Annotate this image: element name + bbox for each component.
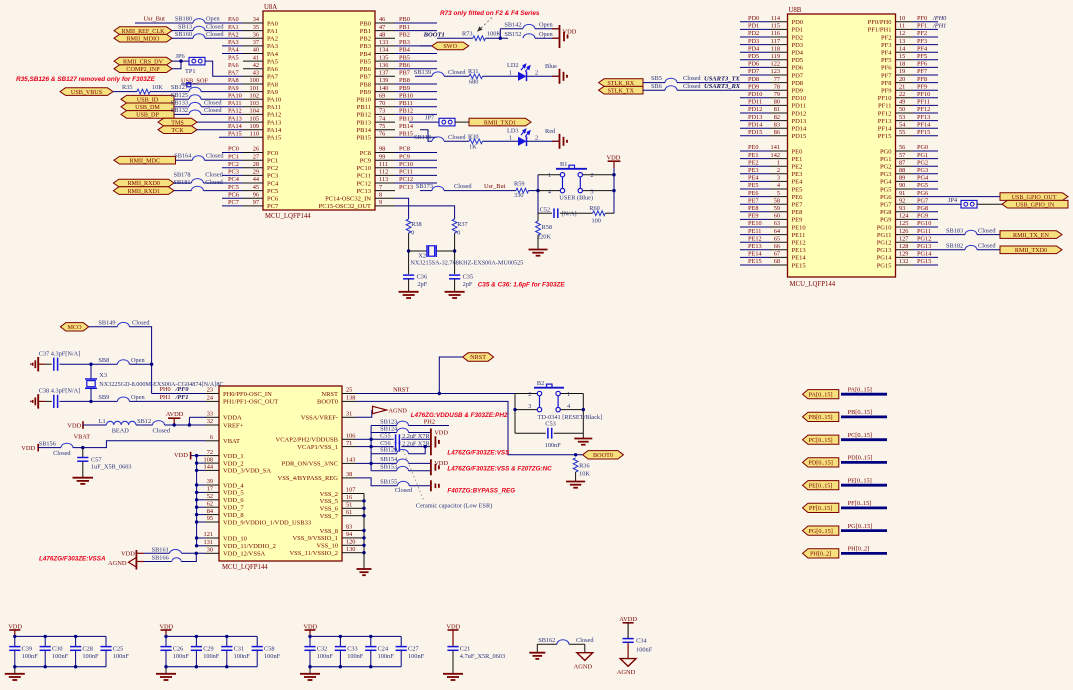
svg-text:PB14: PB14	[357, 127, 372, 134]
U8A pin PB4 (134)	[360, 47, 411, 58]
wire PB2 to R73	[437, 37, 473, 39]
wire PG9	[913, 218, 938, 220]
svg-text:PA13: PA13	[267, 119, 281, 126]
svg-text:75: 75	[379, 123, 385, 130]
svg-text:SB181: SB181	[173, 179, 190, 186]
wire USB_ID to SB125	[174, 98, 189, 100]
port USB_GPIO_OUT	[1000, 193, 1068, 201]
U8B pin PD8 (77)	[748, 76, 803, 87]
svg-text:2: 2	[528, 391, 531, 398]
svg-text:Closed: Closed	[683, 83, 701, 90]
svg-text:1: 1	[777, 159, 780, 166]
svg-text:PE15: PE15	[748, 258, 762, 265]
svg-text:PC5: PC5	[267, 188, 278, 195]
wire R31 to LD2	[483, 75, 519, 77]
svg-text:72: 72	[207, 449, 213, 456]
wire PG5	[913, 188, 938, 190]
solder bridge SB123	[380, 418, 408, 425]
svg-text:Closed: Closed	[205, 171, 223, 178]
svg-text:RMII_TXD1: RMII_TXD1	[484, 120, 516, 126]
capacitor C39 100nF	[9, 636, 38, 666]
capacitor C38 4.3pF[N/A]	[38, 388, 80, 408]
svg-text:PD11: PD11	[792, 103, 807, 110]
svg-text:PG14: PG14	[877, 255, 893, 262]
wire PB14 to SB118	[420, 130, 432, 142]
ground (C35)	[445, 291, 465, 293]
bus wire PH[0..2]	[841, 552, 887, 555]
power VDD (PDR_ON)	[431, 459, 449, 475]
svg-text:VSSA/VREF-: VSSA/VREF-	[301, 415, 338, 422]
svg-text:PE8: PE8	[748, 205, 759, 212]
svg-text:13: 13	[899, 38, 905, 45]
wire PA0 to SB180	[135, 22, 193, 24]
junction right rail top	[612, 173, 615, 176]
svg-text:SB6: SB6	[651, 83, 662, 90]
svg-text:Closed: Closed	[204, 99, 222, 106]
svg-text:PH[0..2]: PH[0..2]	[848, 546, 870, 553]
junction PDR_ON	[369, 462, 372, 465]
svg-text:PD6: PD6	[792, 65, 804, 72]
svg-text:PB13: PB13	[357, 119, 371, 126]
svg-text:PD0: PD0	[748, 15, 759, 22]
IC U8B (MCU_LQFP144)	[788, 7, 896, 288]
svg-text:PE2: PE2	[748, 159, 759, 166]
svg-text:PC12: PC12	[357, 180, 371, 187]
svg-text:112: 112	[379, 169, 388, 176]
svg-text:PE14: PE14	[748, 251, 762, 258]
svg-text:SB155: SB155	[380, 479, 397, 486]
svg-text:21: 21	[899, 83, 905, 90]
wire USB_VBUS to R35	[113, 91, 137, 93]
svg-text:PB8: PB8	[399, 77, 410, 84]
svg-text:VCAP1/VSS_1: VCAP1/VSS_1	[297, 444, 338, 451]
U8A pin PB6 (136)	[360, 62, 410, 73]
solder bridge SB154	[371, 456, 408, 463]
wire PC7	[222, 205, 243, 207]
U8B pin PE1 (142)	[748, 152, 802, 163]
solder bridge SB161	[152, 547, 182, 554]
svg-text:PE6: PE6	[748, 190, 759, 197]
svg-text:RMII_REF_CLK: RMII_REF_CLK	[122, 29, 166, 35]
svg-text:C34: C34	[636, 638, 647, 645]
junction AVDD stem	[173, 423, 176, 426]
svg-text:91: 91	[899, 190, 905, 197]
svg-text:JP7: JP7	[425, 114, 434, 121]
wire PF6	[913, 66, 938, 68]
U8B pin PD14 (83)	[748, 121, 807, 132]
svg-text:SB180: SB180	[175, 16, 192, 23]
ground (bank C26)	[156, 673, 176, 675]
svg-text:PF8: PF8	[881, 80, 891, 87]
junction VSS rail VSS_5	[362, 499, 365, 502]
U8C pin VSS_7 (61)	[320, 509, 356, 520]
junction B2 right row2	[582, 408, 585, 411]
svg-text:SB183: SB183	[946, 227, 963, 234]
wire RMII_MDIO to PA2	[172, 37, 193, 39]
svg-text:PA4: PA4	[228, 47, 239, 54]
svg-text:PF5: PF5	[917, 53, 927, 60]
svg-text:PB10: PB10	[357, 97, 371, 104]
solder bridge SB125	[171, 92, 201, 99]
crystal X3 NX3225GD-8.000M	[85, 372, 224, 388]
svg-text:130: 130	[346, 546, 355, 553]
solder bridge SB13 (Closed)	[178, 23, 224, 30]
svg-text:TCK: TCK	[171, 128, 184, 134]
svg-text:C55: C55	[380, 433, 391, 440]
svg-text:SB173: SB173	[416, 183, 433, 190]
wire PD5	[740, 59, 770, 61]
svg-text:RMII_MDIO: RMII_MDIO	[127, 36, 160, 42]
svg-text:30: 30	[207, 547, 213, 554]
svg-text:45: 45	[253, 184, 259, 191]
wire NRST flag riser	[439, 357, 462, 394]
solder bridge SB162 (Closed)	[538, 637, 594, 644]
svg-text:0: 0	[411, 229, 414, 236]
svg-text:VSS_10: VSS_10	[316, 543, 338, 550]
svg-text:/PF0: /PF0	[175, 386, 190, 393]
solder bridge SB156 (Closed)	[39, 440, 73, 456]
svg-text:PB11: PB11	[399, 100, 413, 107]
U8A pin PA15 (110)	[228, 131, 281, 142]
U8A pin PC12 (113)	[357, 176, 413, 187]
svg-text:102: 102	[250, 92, 259, 99]
bus port PE[0..15]	[803, 481, 839, 490]
svg-text:PF15: PF15	[878, 133, 892, 140]
svg-text:7: 7	[379, 184, 382, 191]
wire bus to VDD_8	[197, 514, 205, 516]
svg-text:SB178: SB178	[173, 171, 190, 178]
wire JP4 to USB_GPIO_IN	[977, 203, 1002, 205]
svg-text:PE12: PE12	[748, 235, 762, 242]
U8C pin VSS_6 (51)	[320, 502, 356, 513]
svg-text:50: 50	[899, 106, 905, 113]
U8A pin PC1 (27)	[228, 153, 278, 164]
U8B pin PE8 (59)	[748, 205, 802, 216]
svg-text:PA13: PA13	[228, 115, 242, 122]
svg-text:PG[0..15]: PG[0..15]	[848, 523, 873, 530]
svg-text:138: 138	[346, 395, 355, 402]
svg-text:VDDA: VDDA	[223, 415, 242, 422]
U8B pin PG10 (125)	[877, 220, 932, 231]
U8A pin PB14 (75)	[357, 123, 414, 134]
svg-text:PD3: PD3	[748, 38, 759, 45]
wire PE1	[740, 158, 770, 160]
junction VSS rail VSS_9/VSSIO_1	[362, 536, 365, 539]
svg-text:PA12: PA12	[228, 108, 242, 115]
svg-text:PC0: PC0	[267, 150, 278, 157]
svg-text:71: 71	[346, 440, 352, 447]
svg-text:SB133: SB133	[171, 99, 188, 106]
svg-text:PD12: PD12	[748, 106, 762, 113]
svg-text:84: 84	[207, 508, 214, 515]
U8B pin PF15 (55)	[878, 129, 931, 140]
junction bottom bus C30	[44, 665, 47, 668]
svg-text:38: 38	[346, 471, 352, 478]
svg-text:PE11: PE11	[748, 228, 761, 235]
svg-text:128: 128	[899, 243, 908, 250]
U8A pin PC7 (97)	[228, 199, 279, 210]
svg-text:63: 63	[774, 220, 780, 227]
svg-text:PD14: PD14	[792, 126, 808, 133]
svg-text:10K: 10K	[579, 471, 590, 478]
wire PB6	[395, 68, 437, 70]
svg-text:14: 14	[899, 45, 906, 52]
svg-text:C53: C53	[545, 420, 556, 427]
svg-text:AGND: AGND	[574, 664, 593, 671]
U8B pin PG4 (89)	[880, 175, 929, 186]
svg-text:SB161: SB161	[152, 547, 169, 554]
svg-text:129: 129	[899, 251, 908, 258]
port COMP2_INP	[114, 65, 172, 73]
svg-text:PB15: PB15	[357, 135, 371, 142]
svg-text:111: 111	[379, 161, 388, 168]
svg-text:/PH0: /PH0	[932, 15, 947, 22]
wire PF12	[913, 112, 938, 114]
wire PG6 to USB_GPIO_OUT	[913, 196, 1000, 198]
wire C38 to SB9	[60, 400, 118, 402]
svg-text:PG15: PG15	[877, 262, 892, 269]
wire VSS_4 pin row	[356, 478, 397, 486]
svg-text:PG14: PG14	[917, 251, 932, 258]
svg-text:PE3: PE3	[748, 167, 759, 174]
port STLK_RX	[599, 79, 643, 87]
junction VSS rail VSS_10	[362, 544, 365, 547]
svg-text:SB125: SB125	[171, 92, 188, 99]
U8C pin VDDA (33)	[205, 411, 242, 422]
wire riser to PH0 pin	[152, 393, 205, 395]
svg-text:54: 54	[899, 121, 906, 128]
solder bridge SB155 (Closed)	[380, 479, 413, 495]
svg-text:58: 58	[774, 197, 780, 204]
svg-text:PF14: PF14	[878, 126, 892, 133]
U8B pin PF1/PH1 (11)	[868, 23, 928, 34]
svg-text:PD10: PD10	[792, 95, 807, 102]
wire PF10	[913, 97, 938, 99]
svg-text:117: 117	[771, 38, 780, 45]
wire PB13 to JP7	[409, 121, 439, 123]
junction B1 left	[536, 189, 539, 192]
capacitor C35 2pF	[449, 274, 473, 288]
power VDD (L1)	[67, 421, 83, 429]
junction VSS rail VSS_7	[362, 514, 365, 517]
U8C pin VCAP1/VSS_1 (71)	[297, 440, 356, 451]
svg-text:47: 47	[379, 24, 385, 31]
U8B pin PF3 (13)	[881, 38, 927, 49]
wire VSS_2 stub	[356, 493, 364, 495]
U8B pin PG7 (92)	[880, 197, 928, 208]
ground (C36)	[399, 291, 419, 293]
svg-text:VDD: VDD	[607, 154, 621, 161]
junction VDD entry (C32)	[308, 635, 311, 638]
svg-text:RMII_RXD1: RMII_RXD1	[127, 189, 160, 195]
svg-text:PC2: PC2	[267, 165, 278, 172]
svg-text:99: 99	[379, 153, 385, 160]
dotted leader to C55/C56	[403, 450, 424, 501]
wire bus to VDD_7	[197, 506, 205, 508]
svg-text:F407ZG:BYPASS_REG: F407ZG:BYPASS_REG	[447, 488, 515, 495]
svg-text:PE4: PE4	[748, 175, 759, 182]
svg-text:1: 1	[509, 70, 512, 77]
junction bottom bus C29	[195, 665, 198, 668]
svg-text:64: 64	[774, 228, 781, 235]
power terminal (C37)	[37, 357, 39, 371]
svg-text:2: 2	[535, 70, 538, 77]
wire VSS rail	[363, 494, 365, 553]
svg-text:143: 143	[346, 457, 355, 464]
svg-text:C21: C21	[460, 646, 471, 653]
wire bus to VDD_3/VDD_SA	[197, 469, 205, 471]
wire PB8	[395, 83, 437, 85]
svg-text:PB5: PB5	[399, 54, 410, 61]
wire VDDA row	[189, 416, 205, 418]
U8B pin PF2 (12)	[881, 30, 927, 41]
svg-text:35: 35	[253, 24, 259, 31]
resistor R30 1K	[468, 133, 483, 150]
svg-text:PC6: PC6	[228, 192, 239, 199]
bus wire PF[0..15]	[841, 506, 887, 509]
svg-text:PG1: PG1	[917, 152, 928, 159]
wire PE6	[740, 196, 770, 198]
svg-text:100nF: 100nF	[264, 653, 281, 660]
solder bridge SB124	[380, 425, 408, 432]
wire SB124 to VDD bar	[409, 432, 431, 434]
svg-text:PA1: PA1	[228, 24, 239, 31]
svg-text:PH0/PF0-OSC_IN: PH0/PF0-OSC_IN	[223, 391, 272, 398]
solder bridge SB166	[152, 555, 182, 562]
svg-text:PF14: PF14	[917, 121, 931, 128]
port RMII_TXD0	[1000, 246, 1062, 254]
svg-text:PG13: PG13	[877, 247, 892, 254]
wire PF13	[913, 120, 938, 122]
svg-text:AVDD: AVDD	[619, 616, 637, 623]
junction bottom bus C33	[339, 665, 342, 668]
capacitor C25 100nF	[100, 636, 129, 666]
svg-text:PF1/PH1: PF1/PH1	[868, 27, 892, 34]
svg-text:140: 140	[379, 85, 388, 92]
svg-text:PA2: PA2	[228, 31, 239, 38]
svg-text:C30: C30	[52, 646, 63, 653]
power VDD (SB142/SB152)	[560, 25, 577, 48]
svg-text:PF13: PF13	[878, 118, 892, 125]
svg-text:89: 89	[899, 175, 905, 182]
svg-text:PC10: PC10	[399, 161, 413, 168]
svg-text:PG11: PG11	[917, 228, 931, 235]
svg-text:PC5: PC5	[228, 184, 239, 191]
svg-text:PE[0..15]: PE[0..15]	[848, 477, 872, 484]
svg-text:C35: C35	[463, 274, 474, 281]
svg-text:PC0: PC0	[228, 146, 239, 153]
wire VDD to L1	[83, 424, 106, 426]
svg-text:PC4: PC4	[228, 176, 240, 183]
svg-text:87: 87	[899, 159, 905, 166]
U8B pin PE2 (1)	[748, 159, 802, 170]
svg-text:PH2: PH2	[424, 418, 435, 425]
svg-text:100nF: 100nF	[22, 653, 39, 660]
svg-text:94: 94	[346, 531, 353, 538]
svg-text:PE7: PE7	[748, 197, 759, 204]
svg-text:PF[0..15]: PF[0..15]	[848, 500, 872, 507]
U8B pin PE10 (63)	[748, 220, 806, 231]
svg-text:VDD: VDD	[434, 460, 448, 467]
wire PD10	[740, 97, 770, 99]
wire PC13 to SB173	[420, 190, 432, 192]
wire R38 to X2	[408, 233, 410, 274]
wire LD2 to rail	[527, 75, 560, 77]
wire VSS_5 stub	[356, 500, 364, 502]
wire PD7	[740, 74, 770, 76]
wire PC15 to R37	[395, 206, 455, 219]
wire C56 to junction	[401, 446, 425, 448]
wire AGND to SB166	[136, 561, 144, 563]
bus wire PE[0..15]	[841, 484, 887, 487]
junction bus VDD_2	[195, 461, 198, 464]
solder bridge SB152 (Open)	[504, 31, 553, 38]
svg-text:PD8: PD8	[792, 80, 804, 87]
svg-text:VBAT: VBAT	[74, 433, 91, 440]
U8B pin PG8 (93)	[880, 205, 928, 216]
wire SB155 to bar	[409, 485, 431, 487]
svg-text:PG5: PG5	[880, 186, 892, 193]
wire PG8	[913, 211, 938, 213]
svg-text:PF12: PF12	[917, 106, 930, 113]
svg-text:MCU_LQFP144: MCU_LQFP144	[265, 213, 311, 220]
junction SB8/riser	[150, 363, 153, 366]
wire VSS_8 stub	[356, 530, 364, 532]
wire PD6	[740, 66, 770, 68]
svg-text:10K: 10K	[152, 84, 163, 91]
svg-text:/PH1: /PH1	[932, 23, 946, 30]
svg-text:PA7: PA7	[267, 74, 279, 81]
svg-text:PD14: PD14	[748, 121, 763, 128]
U8A pin PB10 (69)	[357, 92, 413, 103]
junction C37/X3	[89, 363, 92, 366]
svg-text:SB132: SB132	[171, 107, 188, 114]
U8B pin PE15 (68)	[748, 258, 806, 269]
junction bus VDD_9/VDDIO_1/VDD_USB33	[195, 520, 198, 523]
wire PF8	[913, 82, 938, 84]
svg-text:PA11: PA11	[267, 104, 281, 111]
wire SB162 ground stem	[536, 644, 538, 653]
svg-text:PB3: PB3	[399, 39, 410, 46]
svg-text:122: 122	[771, 61, 780, 68]
svg-text:PC9: PC9	[399, 153, 410, 160]
svg-text:PF4: PF4	[917, 45, 928, 52]
power AVDD (C34)	[619, 616, 637, 638]
svg-text:PA4: PA4	[267, 51, 279, 58]
wire VSS_7 stub	[356, 515, 364, 517]
svg-text:L476ZG/F303ZE:VSS: L476ZG/F303ZE:VSS	[447, 450, 510, 457]
wire PB4	[395, 53, 437, 55]
port STLK_TX	[599, 86, 643, 94]
svg-text:PA15: PA15	[267, 135, 281, 142]
U8B pin PF0/PH0 (10)	[868, 15, 928, 26]
svg-text:59: 59	[774, 205, 780, 212]
svg-text:125: 125	[899, 220, 908, 227]
U8B pin PD7 (123)	[748, 68, 804, 79]
wire PC12	[395, 182, 437, 184]
U8B pin PG0 (56)	[880, 144, 928, 155]
svg-text:28: 28	[253, 161, 259, 168]
svg-text:96: 96	[253, 192, 259, 199]
svg-text:PB2: PB2	[360, 36, 371, 43]
wire SB166 riser	[181, 553, 196, 561]
svg-text:PG13: PG13	[917, 243, 931, 250]
U8C pin VSS_2 (107)	[320, 487, 356, 498]
svg-text:PB1: PB1	[399, 24, 410, 31]
svg-text:PG8: PG8	[917, 205, 928, 212]
svg-text:32: 32	[207, 418, 213, 425]
svg-text:Closed: Closed	[205, 179, 223, 186]
